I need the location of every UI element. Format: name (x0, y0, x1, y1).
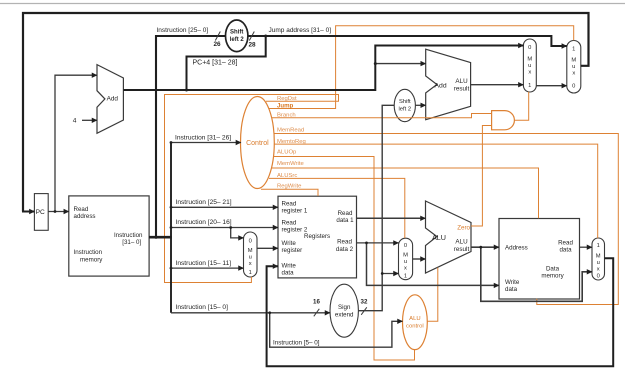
svg-text:M: M (248, 248, 253, 254)
wire MemRead control signal (274, 134, 618, 305)
svg-text:u: u (404, 259, 407, 265)
svg-text:ALU: ALU (409, 316, 420, 322)
svg-text:register 1: register 1 (282, 208, 308, 215)
svg-text:Address: Address (505, 245, 528, 252)
wire branch mux output to jump mux (536, 85, 567, 87)
mux write register (RegDst) (244, 232, 258, 277)
wire instruction [15-0] to sign extend (171, 312, 330, 314)
svg-text:Data: Data (546, 265, 560, 272)
svg-text:Read: Read (558, 239, 573, 246)
svg-text:Read: Read (74, 206, 89, 213)
svg-text:u: u (572, 64, 575, 70)
instruction memory (69, 196, 149, 276)
junction instruction bus x156 (154, 236, 157, 239)
svg-text:Instruction: Instruction (74, 249, 103, 256)
svg-text:0: 0 (572, 84, 575, 90)
bit width tick 26 (215, 32, 220, 41)
wire read data 1 to ALU (357, 217, 426, 219)
svg-text:Jump: Jump (277, 103, 294, 110)
wire ALU control to ALU operation input (427, 268, 438, 322)
bit width tick 32 (361, 307, 367, 315)
wire RegDst control signal (165, 95, 339, 283)
wire instruction [25-21] to read register 1 (171, 206, 278, 208)
wire MemtoReg control signal (274, 144, 598, 238)
svg-text:result: result (454, 246, 470, 253)
svg-text:ALUOp: ALUOp (277, 150, 297, 156)
wire sign extend output to shift left 2 (358, 105, 394, 310)
svg-text:Shift: Shift (399, 99, 411, 105)
svg-text:0: 0 (249, 238, 252, 244)
mux ALU source (ALUSrc) (399, 238, 413, 280)
junction regdst fork (229, 226, 232, 229)
svg-text:data: data (505, 286, 518, 293)
PC register (34, 194, 48, 231)
registers file (278, 196, 357, 278)
svg-text:RegDst: RegDst (277, 96, 297, 102)
svg-text:Write: Write (282, 240, 297, 247)
svg-text:u: u (249, 255, 252, 261)
svg-text:x: x (404, 266, 407, 272)
svg-text:MemWrite: MemWrite (277, 161, 304, 167)
wire PC+4 to branch adder (375, 63, 425, 65)
wire instruction [5-0] to ALU control (270, 313, 403, 347)
svg-text:0: 0 (528, 45, 531, 51)
svg-text:MemtoReg: MemtoReg (277, 139, 306, 145)
svg-text:28: 28 (249, 42, 257, 49)
junction instruction 5-0 fork (268, 311, 271, 314)
wire PC to Add (55, 75, 97, 211)
svg-text:data 1: data 1 (336, 217, 354, 224)
svg-text:Read: Read (282, 219, 297, 226)
svg-text:1: 1 (404, 274, 407, 280)
bit width tick 16 (314, 309, 320, 317)
data memory (499, 219, 580, 300)
svg-text:4: 4 (73, 117, 77, 124)
junction instruction tap 31-26 (170, 141, 173, 144)
junction sign extend tap (381, 272, 384, 275)
wire instruction [15-11] to regdst mux input 1 (171, 267, 244, 269)
mux jump (1 Mux 0) (567, 41, 581, 94)
svg-text:PC+4 [31– 28]: PC+4 [31– 28] (193, 60, 238, 67)
svg-text:register: register (282, 247, 303, 254)
junction read data 2 fork (365, 242, 368, 245)
wire AND gate output to branch mux select (515, 92, 529, 120)
svg-text:u: u (597, 260, 600, 266)
svg-text:extend: extend (335, 311, 354, 318)
svg-text:16: 16 (313, 299, 320, 306)
junction PC+4 at x375 (374, 62, 377, 65)
wire Zero flag to AND gate (471, 126, 492, 227)
svg-text:1: 1 (597, 243, 600, 249)
wire instruction bus vertical tap (170, 143, 172, 313)
mux memtoreg (1 Mux 0) (592, 238, 605, 280)
wire ALU result to data memory address (471, 246, 499, 248)
wire ALUSrc control signal (269, 178, 405, 238)
svg-text:Read: Read (282, 200, 297, 207)
wire data memory read data to final mux input 1 (580, 246, 593, 248)
junction PC+4 at x186 (185, 89, 188, 92)
svg-text:ALU: ALU (432, 233, 446, 242)
wire PC+4 [31-28] to jump address (187, 36, 266, 90)
junction instruction tap 15-11 (170, 267, 173, 270)
svg-text:Sign: Sign (338, 304, 351, 311)
svg-text:Zero: Zero (457, 225, 470, 232)
svg-text:32: 32 (361, 299, 368, 306)
svg-text:Control: Control (246, 140, 269, 147)
svg-text:x: x (572, 71, 575, 77)
wire Jump control signal (269, 26, 574, 109)
svg-text:Jump address [31– 0]: Jump address [31– 0] (269, 27, 332, 34)
svg-text:1: 1 (249, 270, 252, 276)
svg-text:PC: PC (36, 209, 45, 216)
wire MemWrite control signal (272, 168, 539, 218)
wire instruction [31-26] to control (171, 142, 241, 144)
svg-text:Instruction [20– 16]: Instruction [20– 16] (176, 219, 232, 226)
svg-text:Read: Read (338, 210, 353, 217)
wire read data 2 to ALU mux input 0 (357, 242, 399, 244)
svg-text:RegWrite: RegWrite (277, 184, 302, 190)
svg-text:MemRead: MemRead (277, 127, 304, 133)
junction jump address at x265 (264, 35, 267, 38)
svg-text:memory: memory (80, 257, 103, 264)
svg-text:control: control (406, 323, 424, 329)
shift left 2 (branch) (394, 89, 415, 121)
svg-text:Instruction [15– 0]: Instruction [15– 0] (176, 304, 229, 311)
bit width tick 28 (249, 32, 254, 41)
svg-text:Instruction [15– 11]: Instruction [15– 11] (176, 260, 232, 267)
wire into PC (22, 211, 34, 213)
svg-text:1: 1 (528, 83, 531, 89)
svg-text:data: data (282, 270, 295, 277)
svg-text:Instruction [25– 0]: Instruction [25– 0] (157, 27, 209, 34)
svg-text:Instruction [25– 21]: Instruction [25– 21] (176, 199, 232, 206)
AND gate (branch and zero) (492, 111, 515, 130)
svg-text:x: x (528, 70, 531, 76)
adder Add (PC+4) (97, 65, 123, 134)
wire RegWrite control signal (261, 189, 318, 196)
wire regdst mux output to write register (257, 247, 278, 249)
svg-text:ALU: ALU (455, 78, 468, 85)
junction ALU result fork (479, 246, 482, 249)
wire PC feedback loop from jump mux output (23, 13, 589, 212)
svg-text:Write: Write (505, 279, 520, 286)
svg-text:Shift: Shift (230, 30, 243, 36)
wire PC+4 from Add to branch mux (123, 46, 523, 91)
svg-text:Instruction [5– 0]: Instruction [5– 0] (273, 340, 320, 347)
svg-text:Registers: Registers (304, 233, 330, 240)
mux branch (0 Mux 1) (523, 39, 536, 92)
wire ALU mux output to ALU (413, 258, 426, 260)
wire instruction [20-16] branch to regdst mux input 0 (231, 228, 244, 238)
svg-text:M: M (596, 254, 601, 260)
wire instruction [20-16] to read register 2 (171, 227, 278, 229)
wire Branch control signal (272, 114, 492, 118)
svg-text:0: 0 (597, 274, 600, 280)
svg-text:Write: Write (282, 262, 297, 269)
ALU control unit (403, 295, 428, 350)
svg-text:x: x (597, 267, 600, 273)
svg-text:data 2: data 2 (336, 246, 354, 253)
svg-text:Add: Add (435, 83, 447, 90)
wire constant 4 into Add (82, 119, 97, 121)
svg-text:result: result (454, 85, 470, 92)
wire read data 2 branch to data memory write data (367, 243, 500, 286)
main ALU (426, 201, 472, 273)
wire instruction [25-0] to shift left 2 (156, 36, 226, 237)
control unit U-Control (241, 97, 275, 189)
svg-text:[31– 0]: [31– 0] (122, 239, 141, 246)
junction instruction tap 20-16 (170, 226, 173, 229)
wire write back loop to registers write data (267, 258, 614, 366)
svg-text:Branch: Branch (277, 113, 296, 119)
svg-text:left 2: left 2 (230, 37, 245, 43)
svg-text:Read: Read (337, 239, 352, 246)
svg-text:memory: memory (541, 273, 564, 280)
junction PC wire (54, 210, 57, 213)
svg-text:Instruction: Instruction (114, 232, 143, 239)
svg-text:x: x (249, 261, 252, 267)
wire shift left 2 to branch adder (416, 104, 426, 106)
svg-text:26: 26 (214, 41, 222, 48)
svg-text:0: 0 (404, 243, 407, 249)
wire ALUOp control signal (274, 157, 415, 361)
junction instruction tap 25-21 (170, 206, 173, 209)
svg-text:ALU: ALU (455, 239, 468, 246)
svg-text:M: M (527, 57, 532, 63)
svg-text:M: M (571, 58, 576, 64)
wire jump address [31-0] to jump mux (248, 36, 567, 46)
svg-text:1: 1 (572, 46, 575, 52)
svg-text:data: data (559, 247, 572, 254)
svg-text:Instruction [31– 26]: Instruction [31– 26] (175, 135, 231, 142)
svg-text:M: M (403, 253, 408, 259)
wire branch adder result to branch mux (471, 84, 524, 86)
svg-text:Add: Add (107, 96, 119, 103)
svg-text:address: address (74, 213, 96, 220)
svg-text:left 2: left 2 (399, 106, 412, 112)
wire instruction memory output bus (149, 236, 172, 239)
wire sign extend branch to ALU mux input 1 (382, 273, 398, 275)
svg-text:u: u (528, 63, 531, 69)
wire PC to instruction memory read address (48, 211, 69, 213)
sign extend (330, 284, 358, 337)
wire ALU result loop to final mux input 0 (481, 247, 592, 301)
adder Add (branch target) (426, 49, 471, 120)
svg-text:ALUSrc: ALUSrc (277, 173, 297, 179)
shift left 2 (jump address) (226, 20, 248, 52)
